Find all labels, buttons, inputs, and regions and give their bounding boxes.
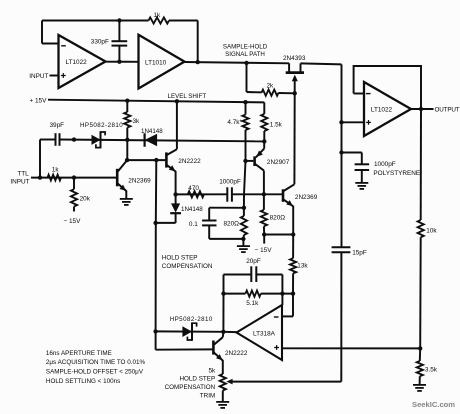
svg-text:4.7k*: 4.7k* — [227, 119, 242, 126]
svg-text:2k: 2k — [267, 82, 275, 89]
svg-text:16ns APERTURE TIME: 16ns APERTURE TIME — [46, 350, 112, 357]
svg-text:2N2222: 2N2222 — [178, 158, 201, 165]
svg-text:3.5k: 3.5k — [425, 367, 438, 374]
svg-text:− 15V: − 15V — [64, 218, 82, 225]
svg-text:LT318A: LT318A — [253, 330, 276, 337]
svg-text:LT1010: LT1010 — [145, 60, 167, 67]
svg-text:COMPENSATION: COMPENSATION — [162, 263, 213, 270]
svg-text:HOLD STEP: HOLD STEP — [162, 255, 198, 262]
svg-text:SeekIC.com: SeekIC.com — [412, 400, 455, 409]
svg-text:20k: 20k — [80, 195, 91, 202]
svg-text:SAMPLE-HOLD: SAMPLE-HOLD — [223, 44, 268, 51]
svg-text:1N4148: 1N4148 — [141, 128, 163, 135]
svg-text:1000pF: 1000pF — [219, 178, 241, 185]
svg-text:1k: 1k — [154, 12, 162, 19]
svg-text:2N2222: 2N2222 — [225, 350, 248, 357]
svg-text:13k: 13k — [297, 262, 308, 269]
svg-text:2N2369: 2N2369 — [295, 194, 318, 201]
svg-text:HP5082-2810: HP5082-2810 — [80, 122, 123, 129]
svg-text:LT1022: LT1022 — [66, 59, 88, 66]
svg-text:1.5k: 1.5k — [270, 121, 283, 128]
svg-text:+ 15V: + 15V — [30, 97, 48, 104]
svg-text:OUTPUT: OUTPUT — [435, 107, 460, 114]
svg-text:470: 470 — [188, 185, 199, 192]
svg-text:TTL: TTL — [17, 170, 29, 177]
svg-text:HP5082-2810: HP5082-2810 — [170, 316, 213, 323]
svg-text:1000pF: 1000pF — [374, 161, 396, 168]
svg-text:2μs ACQUISITION TIME TO 0.01%: 2μs ACQUISITION TIME TO 0.01% — [46, 359, 146, 366]
svg-text:3k: 3k — [133, 118, 141, 125]
svg-text:0.1: 0.1 — [189, 221, 198, 228]
svg-text:5k: 5k — [208, 367, 216, 374]
svg-text:INPUT: INPUT — [29, 73, 48, 80]
svg-text:20pF: 20pF — [246, 258, 261, 265]
svg-text:2N2369: 2N2369 — [128, 177, 151, 184]
svg-text:820Ω: 820Ω — [270, 214, 286, 221]
svg-text:− 15V: − 15V — [255, 247, 273, 254]
svg-text:330pF: 330pF — [91, 38, 109, 45]
svg-text:HOLD STEP: HOLD STEP — [179, 376, 215, 383]
svg-text:POLYSTYRENE: POLYSTYRENE — [373, 170, 420, 177]
svg-text:1N4148: 1N4148 — [181, 206, 203, 213]
svg-text:15pF: 15pF — [352, 249, 367, 256]
svg-text:TRIM: TRIM — [200, 393, 215, 400]
svg-text:INPUT: INPUT — [10, 179, 29, 186]
svg-text:LEVEL SHIFT: LEVEL SHIFT — [168, 93, 207, 100]
svg-text:SIGNAL PATH: SIGNAL PATH — [225, 51, 265, 58]
svg-text:820Ω: 820Ω — [224, 220, 240, 227]
svg-text:39pF: 39pF — [50, 122, 65, 129]
svg-text:LT1022: LT1022 — [371, 106, 393, 113]
svg-text:1k: 1k — [52, 166, 60, 173]
svg-text:2N4393: 2N4393 — [283, 55, 306, 62]
svg-text:COMPENSATION: COMPENSATION — [165, 384, 216, 391]
svg-text:10k: 10k — [426, 228, 437, 235]
svg-text:HOLD SETTLING < 100ns: HOLD SETTLING < 100ns — [46, 378, 120, 385]
svg-text:5.1k: 5.1k — [246, 300, 259, 307]
svg-text:SAMPLE-HOLD OFFSET < 250μV: SAMPLE-HOLD OFFSET < 250μV — [46, 369, 144, 376]
svg-text:2N2907: 2N2907 — [267, 159, 290, 166]
